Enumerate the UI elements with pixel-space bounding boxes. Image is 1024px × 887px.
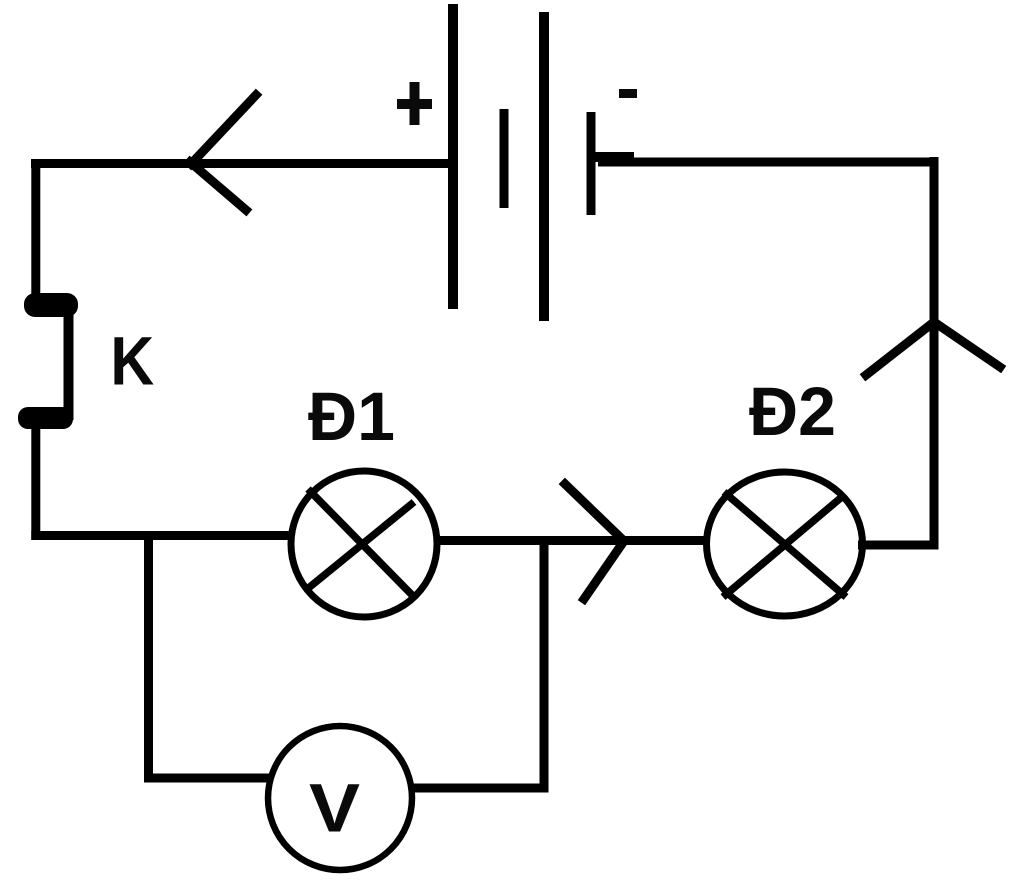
wire voltmeter left xyxy=(144,774,270,783)
label + (positive terminal) xyxy=(397,82,432,125)
current arrow right (pointing up) xyxy=(866,322,1000,375)
switch K lever xyxy=(64,303,74,420)
switch K bottom contact xyxy=(18,407,73,429)
wire stub at negative plate xyxy=(591,152,634,162)
lamp D2 circle xyxy=(707,472,863,616)
wire right vertical xyxy=(930,157,939,549)
battery B1 long plate (cell 2) xyxy=(539,12,549,321)
voltmeter V circle xyxy=(268,726,412,870)
current arrow left (pointing left) xyxy=(190,95,256,210)
wire switch to bottom-left corner xyxy=(31,426,40,540)
label - (negative terminal) xyxy=(619,89,637,98)
node A branch wire (down to voltmeter left) xyxy=(144,531,153,782)
node B branch wire (up to main wire) xyxy=(540,536,549,793)
svg-text:V: V xyxy=(309,770,360,847)
lamp D2 cross stroke 1 xyxy=(724,492,846,597)
svg-text:Đ1: Đ1 xyxy=(308,378,395,455)
wire top-left (from battery + to left corner) xyxy=(31,159,453,168)
current arrow middle (pointing right) xyxy=(565,484,624,599)
wire left vertical (corner down to switch) xyxy=(31,159,40,296)
lamp D2 cross stroke 2 xyxy=(723,496,843,597)
switch K top contact xyxy=(24,293,78,317)
battery B1 positive long plate xyxy=(448,4,458,309)
lamp D1 circle xyxy=(291,471,437,617)
lamp D1 cross stroke 2 xyxy=(306,502,414,590)
wire D2 to right corner (main wire right segment) xyxy=(858,541,939,550)
wire D1 to D2 (main wire middle segment) xyxy=(435,536,708,545)
wire top-right (from battery - to right corner) xyxy=(598,158,939,167)
battery B1 short plate (cell 1) xyxy=(500,109,509,208)
svg-text:Đ2: Đ2 xyxy=(749,373,836,450)
battery B1 negative short plate xyxy=(587,112,596,215)
wire node A to lamp D1 (main wire left segment) xyxy=(31,531,293,540)
wire voltmeter right xyxy=(410,784,548,793)
svg-text:K: K xyxy=(110,323,154,400)
lamp D1 cross stroke 1 xyxy=(308,489,416,599)
